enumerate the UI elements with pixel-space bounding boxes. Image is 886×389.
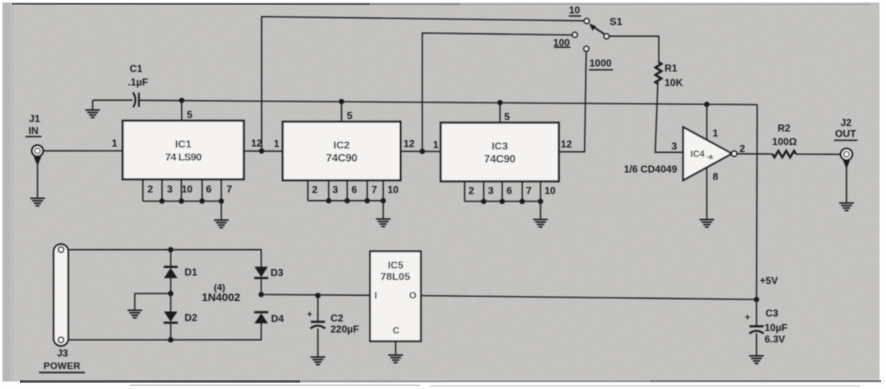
svg-text:OUT: OUT	[835, 129, 856, 140]
svg-text:I: I	[374, 291, 377, 302]
svg-text:3: 3	[672, 142, 678, 153]
svg-text:7: 7	[227, 185, 233, 196]
svg-text:10: 10	[569, 6, 581, 17]
svg-text:C: C	[393, 326, 400, 337]
svg-text:IN: IN	[29, 126, 39, 137]
svg-text:1: 1	[713, 129, 719, 140]
svg-text:C2: C2	[331, 313, 344, 324]
svg-text:7: 7	[372, 185, 378, 196]
svg-text:1: 1	[433, 140, 439, 151]
svg-text:12: 12	[561, 140, 573, 151]
svg-text:6: 6	[352, 185, 358, 196]
svg-text:S1: S1	[610, 16, 623, 28]
svg-text:IC4: IC4	[690, 149, 704, 159]
svg-text:POWER: POWER	[44, 361, 81, 372]
svg-text:D3: D3	[271, 268, 284, 279]
svg-text:10: 10	[388, 185, 400, 196]
svg-text:D1: D1	[185, 268, 198, 279]
svg-text:1000: 1000	[589, 58, 612, 69]
svg-text:5: 5	[504, 112, 510, 123]
svg-text:5: 5	[347, 111, 353, 122]
svg-text:J1: J1	[29, 114, 41, 125]
svg-text:IC2: IC2	[333, 140, 350, 152]
svg-text:IC5: IC5	[388, 260, 404, 271]
svg-text:8: 8	[713, 172, 719, 183]
svg-text:+5V: +5V	[760, 276, 778, 287]
svg-text:IC3: IC3	[492, 141, 509, 153]
svg-text:74C90: 74C90	[326, 152, 357, 164]
svg-text:6: 6	[206, 185, 212, 196]
svg-text:10K: 10K	[665, 78, 684, 89]
svg-text:3: 3	[333, 185, 339, 196]
svg-text:R2: R2	[778, 124, 791, 135]
svg-text:3: 3	[167, 185, 173, 196]
svg-text:12: 12	[251, 139, 263, 150]
svg-text:6.3V: 6.3V	[765, 334, 786, 345]
svg-text:1: 1	[274, 139, 280, 150]
svg-text:J2: J2	[840, 118, 852, 129]
svg-text:10: 10	[545, 186, 557, 197]
svg-text:C3: C3	[766, 308, 779, 319]
svg-text:D4: D4	[271, 314, 284, 325]
svg-text:10: 10	[181, 185, 193, 196]
svg-text:74C90: 74C90	[484, 153, 515, 165]
svg-text:12: 12	[404, 139, 416, 150]
svg-text:1/6 CD4049: 1/6 CD4049	[624, 165, 678, 176]
svg-text:2: 2	[312, 185, 318, 196]
svg-text:1: 1	[112, 138, 118, 149]
svg-text:+: +	[307, 309, 312, 319]
svg-text:IC1: IC1	[175, 139, 192, 151]
svg-text:3: 3	[488, 186, 494, 197]
svg-text:220µF: 220µF	[331, 325, 360, 336]
svg-text:O: O	[409, 291, 416, 302]
svg-text:5: 5	[187, 110, 193, 121]
svg-text:.1µF: .1µF	[128, 78, 148, 89]
svg-text:D2: D2	[185, 313, 198, 324]
svg-text:6: 6	[507, 186, 513, 197]
svg-text:+: +	[745, 312, 750, 322]
svg-text:-a: -a	[707, 154, 713, 161]
svg-text:R1: R1	[665, 64, 678, 75]
svg-text:7: 7	[526, 186, 532, 197]
svg-text:2: 2	[148, 185, 154, 196]
svg-text:J3: J3	[57, 349, 69, 360]
svg-text:2: 2	[469, 186, 475, 197]
svg-text:100Ω: 100Ω	[772, 137, 797, 148]
svg-text:C1: C1	[130, 64, 143, 75]
svg-text:1N4002: 1N4002	[202, 292, 241, 304]
svg-text:74 LS90: 74 LS90	[165, 151, 202, 163]
svg-text:78L05: 78L05	[380, 271, 410, 283]
svg-text:10µF: 10µF	[765, 323, 788, 334]
